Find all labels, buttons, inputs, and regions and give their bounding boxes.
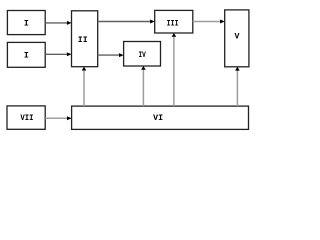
svg-text:IV: IV — [138, 51, 145, 60]
wire I(top) to II — [45, 22, 68, 24]
wire VI up to IV — [142, 69, 144, 106]
wire VI up to V — [236, 70, 238, 106]
arrowhead into V bottom — [235, 67, 240, 71]
wire III to V — [193, 21, 221, 23]
block VII (bottom-left) — [7, 106, 45, 129]
block VI (wide, bottom) — [72, 106, 249, 129]
block I (second, left) — [7, 42, 45, 67]
wire VII to VI — [45, 117, 68, 119]
svg-text:II: II — [78, 36, 88, 45]
wire I(second) to II — [45, 53, 68, 55]
wire II to III — [98, 21, 151, 23]
svg-text:V: V — [235, 33, 240, 42]
svg-text:VII: VII — [20, 114, 33, 123]
arrowhead into II left (from I top) — [67, 21, 72, 25]
svg-text:I: I — [24, 52, 29, 61]
block II — [72, 11, 98, 67]
arrowhead into III bottom — [172, 33, 177, 37]
block IV — [124, 42, 161, 67]
wire VI up to II — [83, 70, 85, 106]
wire VI up to III — [173, 36, 175, 106]
arrowhead into III left — [150, 20, 155, 24]
block I (top-left) — [7, 11, 45, 35]
wire II to IV — [98, 54, 120, 56]
svg-text:I: I — [24, 19, 29, 28]
arrowhead into II bottom — [82, 67, 87, 71]
arrowhead into V left — [220, 20, 225, 24]
arrowhead into IV bottom — [141, 66, 146, 70]
arrowhead into IV left — [119, 53, 124, 57]
arrowhead into VI left — [67, 116, 72, 120]
svg-text:III: III — [167, 19, 179, 28]
svg-text:VI: VI — [153, 114, 163, 123]
block V — [225, 10, 249, 67]
arrowhead into II left (from I second) — [67, 52, 72, 56]
block III — [155, 10, 193, 33]
